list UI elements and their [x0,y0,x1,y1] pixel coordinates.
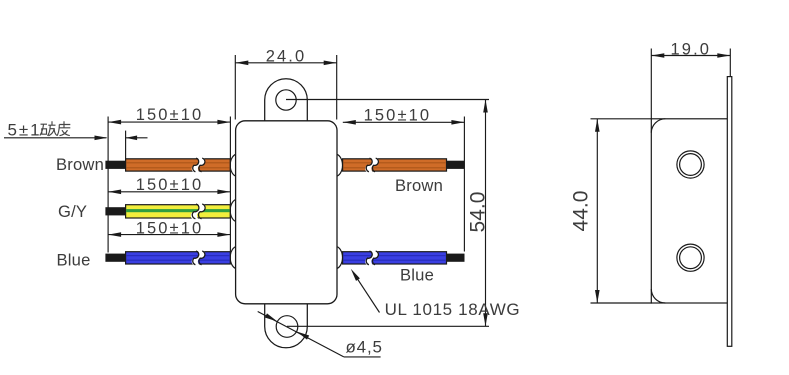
svg-text:G/Y: G/Y [58,202,87,221]
dim 150±10 brown-left line [108,121,230,123]
svg-text:UL 1015 18AWG: UL 1015 18AWG [385,300,521,319]
label 皮 (drawn glyph) [57,121,70,136]
dim 54.0 line [485,100,487,327]
G/Y wire left: stripped black tip [105,207,125,215]
left wire boss (brown) [230,154,237,177]
brown wire right [343,159,447,171]
svg-text:24.0: 24.0 [266,48,307,66]
5±1 strip dim arrow (right) [126,137,148,139]
svg-text:Blue: Blue [57,251,91,270]
svg-text:150±10: 150±10 [364,106,432,124]
side hole lower [677,244,704,271]
UL wire spec leader [353,272,379,312]
svg-text:Brown: Brown [395,176,443,195]
dim 150±10 G/Y line [108,191,230,193]
dim 150±10 right line [343,121,465,123]
svg-text:44.0: 44.0 [570,191,593,232]
svg-text:150±10: 150±10 [136,106,204,124]
side body bottom-left fillet [651,289,665,303]
right wire boss (brown) [335,154,342,177]
svg-text:54.0: 54.0 [467,192,490,233]
top tab hole [276,90,296,110]
side view body [651,119,728,303]
brown wire left: stripped black tip [105,161,125,169]
dim 19.0 line [651,55,730,57]
blue wire left [126,252,231,264]
brown wire left [126,159,231,171]
bottom mounting tab [265,303,308,348]
dim 150±10 blue-left line [108,234,230,236]
top hole centre line [286,99,489,101]
bottom hole centre line [287,325,489,327]
svg-text:150±10: 150±10 [136,220,204,238]
top mounting tab [265,79,308,122]
side body top-left fillet [651,119,665,133]
body-side extension line (boss faces) [229,117,231,252]
svg-text:19.0: 19.0 [671,41,712,59]
blue wire left: stripped black tip [105,254,125,262]
left extension line (wire ends) [107,117,109,253]
dim 24.0 extension lines [234,55,236,120]
side flange [727,77,732,347]
5±1 leader line with arrow [4,137,107,139]
left wire boss (G/Y) [230,199,237,222]
strip-length extension line [125,131,127,160]
right extension line (wire ends right) [463,117,465,252]
right wire boss (blue) [335,246,342,268]
dim 24.0 line [235,62,336,64]
bottom tab hole [276,316,298,338]
svg-text:5±1: 5±1 [8,120,42,139]
dim 44.0 extension lines [591,118,653,120]
svg-text:Blue: Blue [400,266,434,285]
svg-text:ø4,5: ø4,5 [346,337,383,356]
dim 44.0 line [596,119,598,303]
svg-text:150±10: 150±10 [136,176,204,194]
brown wire right: stripped black tip [447,161,465,169]
side hole upper [677,151,704,178]
dim 19.0 extension lines [650,49,652,119]
label 破 (drawn glyph) [40,121,57,136]
blue wire right [343,252,447,264]
left wire boss (blue) [230,246,237,268]
filter body (front view) [236,121,337,304]
φ4,5 leader line [258,312,344,357]
blue wire right: stripped black tip [447,254,465,262]
svg-text:Brown: Brown [56,155,104,174]
G/Y wire left [126,205,231,218]
